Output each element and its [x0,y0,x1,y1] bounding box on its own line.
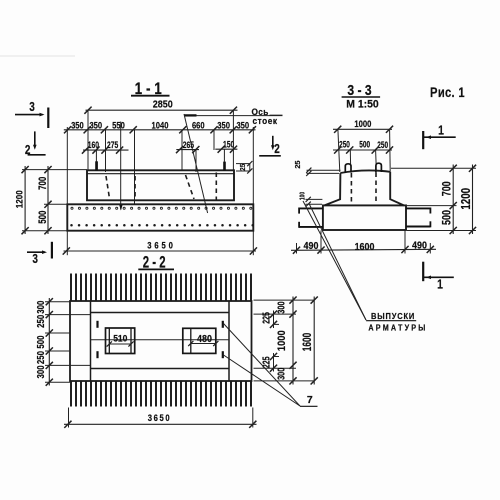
svg-text:700: 700 [37,177,50,190]
slab outline section 1-1 [67,204,253,230]
slab outline section 3-3 [323,205,406,230]
rebar stub right on beam [223,162,226,171]
leader lines to position 7 [224,324,301,407]
diagonal leader D [184,114,208,213]
dim 700-500 vertical line [47,166,49,234]
svg-text:350: 350 [217,120,230,131]
dim 480 inside plate [191,343,216,345]
dimension 160-275 line [83,149,129,151]
svg-text:3: 3 [32,253,38,266]
leader lines to vypuski label [303,201,366,320]
dim 250-500-250 line [333,149,392,151]
hidden socket edges dashed [106,176,110,199]
svg-text:3 - 3: 3 - 3 [347,82,372,98]
dimension 150 line [215,148,237,150]
dim 225 upper line [273,311,275,329]
svg-text:250: 250 [339,140,350,150]
dim 300-1000-300 line [292,297,294,385]
svg-text:ВЫПУСКИ: ВЫПУСКИ [371,312,415,321]
svg-text:490: 490 [412,240,427,252]
svg-text:2 - 2: 2 - 2 [143,253,166,272]
right extension lines 3-3 [391,167,476,169]
svg-text:225: 225 [260,356,272,368]
svg-text:275: 275 [107,140,119,150]
svg-text:Рис. 1: Рис. 1 [430,85,465,100]
mini dim 100 left [306,198,323,200]
beam outline section 1-1 [87,170,234,200]
svg-text:1000: 1000 [354,119,371,130]
svg-text:АРМАТУРЫ: АРМАТУРЫ [368,323,427,333]
svg-text:480: 480 [197,333,212,345]
svg-text:7: 7 [307,394,313,406]
svg-text:350: 350 [89,120,102,131]
rebar stub left on beam [95,161,98,170]
right extension lines plan [254,299,315,301]
plan beam edges [91,312,230,314]
svg-text:2850: 2850 [153,99,173,111]
rebar dots row lower [70,224,73,227]
svg-text:100: 100 [300,191,307,200]
svg-text:1200: 1200 [460,188,473,210]
column socket hidden lines [350,173,352,205]
left extension lines plan [45,301,70,303]
dim 300-250-500-250-300 line [48,298,50,386]
dim 1200 line right [472,165,474,235]
svg-text:25: 25 [240,164,247,171]
section marker 2 right [272,136,274,147]
axis leader line to label [197,115,283,117]
svg-text:1: 1 [438,123,444,137]
section marker 2 left [34,131,36,146]
plan 3650 extensions [68,408,70,428]
extension lines above beam [87,111,89,170]
rebar outlet hatching top [70,274,72,302]
dimension 3650 line sec 1-1 [64,250,257,252]
svg-text:3650: 3650 [147,240,176,251]
svg-text:500: 500 [442,210,454,225]
plan outer outline [70,301,252,381]
svg-text:250: 250 [35,351,46,364]
dim 490-1600-490 line [291,249,436,250]
svg-text:1000: 1000 [276,330,288,351]
svg-text:М 1:50: М 1:50 [346,98,379,110]
svg-text:3650: 3650 [148,413,171,424]
svg-text:1: 1 [437,277,443,291]
svg-text:225: 225 [260,312,272,324]
left extension lines 1-1 [22,169,87,171]
extension with arrow into slab [120,122,122,210]
svg-text:350: 350 [236,120,249,131]
svg-text:300: 300 [35,365,46,378]
dimension 265 line [176,149,199,151]
svg-text:350: 350 [71,120,84,131]
mini dim 25 at beam top right [236,163,251,165]
svg-text:550: 550 [112,120,125,131]
svg-text:250: 250 [377,140,388,150]
section marker 3 top [15,114,43,116]
anchor plate 510 [106,328,135,354]
slab edge extensions down [66,231,68,256]
faint scan artifact line [0,55,75,57]
dim 1000 line [333,128,392,130]
svg-text:3: 3 [29,101,35,114]
mini dim 25 left [307,169,341,171]
dim 510 inside plate [109,343,131,345]
dim 225 lower line [273,353,275,372]
extensions to bottom dim 3-3 [296,243,298,254]
rebar outlets left [299,207,323,209]
dim 1200 vertical line [24,166,26,234]
svg-text:300: 300 [275,368,287,380]
svg-text:2: 2 [274,143,280,156]
svg-text:300: 300 [35,301,46,314]
dimension 3650 line plan [64,423,257,425]
anchor plate 480 [183,328,216,353]
pedestal outline section 3-3 [324,170,403,205]
svg-text:500: 500 [359,140,370,150]
plan rebar stubs [96,321,98,328]
svg-text:2: 2 [25,144,31,157]
rebar loop stub right pedestal [376,163,382,172]
plan beam end lines [90,301,92,381]
svg-text:160: 160 [88,140,100,150]
rebar outlet hatching bottom [70,381,72,407]
section marker 1 top [422,131,424,149]
dim 700-500 line right [452,165,454,235]
dim 1600 line plan [313,297,315,385]
dimension 2850 line [86,109,238,111]
rebar loop stub left pedestal [345,164,351,173]
svg-text:25: 25 [294,161,302,169]
plan center line [91,339,230,341]
svg-text:300: 300 [275,301,287,313]
dimension line 350-350-550-1040-660-350-350 [64,129,256,131]
svg-text:стоек: стоек [253,116,278,126]
svg-text:500: 500 [37,211,50,224]
rebar outlets right [406,207,430,209]
axis leader thick segment [184,114,196,116]
svg-text:500: 500 [35,335,46,348]
rebar dots row upper [71,207,73,209]
svg-text:1040: 1040 [152,120,169,131]
svg-text:265: 265 [183,140,195,150]
section marker 3 bottom [27,251,45,253]
extension lines above pedestal [338,129,340,172]
svg-text:1600: 1600 [355,241,375,253]
section marker 1 bottom [422,262,424,282]
svg-text:1600: 1600 [302,332,315,351]
svg-text:700: 700 [442,181,454,196]
svg-text:660: 660 [192,120,205,131]
svg-text:490: 490 [304,241,319,253]
svg-text:510: 510 [113,333,127,344]
svg-text:1200: 1200 [14,190,25,208]
svg-text:250: 250 [35,315,46,328]
